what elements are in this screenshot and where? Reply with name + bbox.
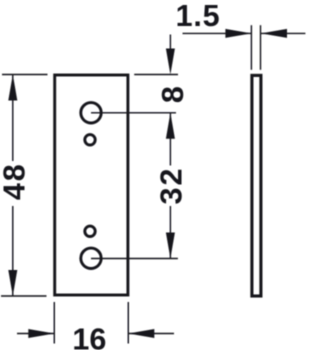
dimension 32 line lower segment — [169, 206, 171, 259]
dimension 1.5 line left segment — [183, 32, 252, 34]
dimension 48 arrow up — [8, 75, 17, 101]
side view plate outline — [252, 75, 261, 296]
hole D2.5 lower — [85, 226, 95, 236]
svg-text:1.5: 1.5 — [176, 0, 221, 33]
svg-text:48: 48 — [0, 162, 32, 200]
dimension 16 arrow left — [128, 329, 154, 338]
dimension 48 line lower segment — [12, 206, 14, 296]
front view plate outline — [55, 75, 128, 295]
hole D5 bottom — [81, 248, 101, 268]
dimension 1.5 arrow right — [225, 29, 251, 38]
dimension 16 left extension line — [53, 302, 55, 344]
dimension 1.5 right extension line — [260, 25, 262, 70]
dimension 16 right extension line — [127, 302, 129, 344]
svg-text:32: 32 — [154, 167, 188, 205]
dimension 32 arrow down — [166, 233, 175, 259]
dimension 48 top extension line — [2, 74, 48, 76]
dimension 16 line right segment — [128, 333, 174, 335]
dimension 16 arrow right — [28, 329, 54, 338]
dimension 32 line upper segment — [169, 113, 171, 166]
hole D2.5 upper — [85, 135, 95, 145]
dimension 8 arrow down — [166, 49, 175, 75]
dimension 16 line left segment — [17, 333, 54, 335]
dimension 1.5 arrow left — [261, 29, 287, 38]
svg-text:16: 16 — [72, 323, 106, 350]
dimension 1.5 left extension line — [250, 25, 252, 70]
dimension 48 bottom extension line — [1, 295, 47, 297]
hole 1 centre extension line — [91, 112, 176, 114]
dimension 48 line upper segment — [12, 75, 14, 161]
hole 2 centre extension line — [91, 258, 178, 260]
dimension 32 arrow up — [166, 113, 175, 139]
dimension 8 leader line above — [169, 35, 171, 51]
svg-text:8: 8 — [156, 86, 190, 103]
dimension 1.5 line right segment — [261, 32, 305, 34]
dimension 8 top extension line — [134, 74, 178, 76]
dimension 48 arrow down — [8, 270, 17, 296]
hole D5 top — [81, 103, 101, 123]
